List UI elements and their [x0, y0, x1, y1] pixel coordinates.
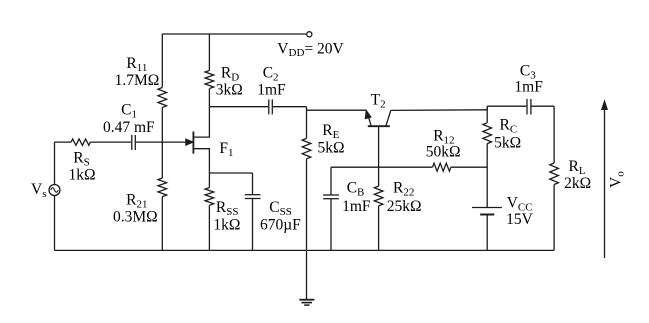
capacitor CSS 670uF — [245, 194, 261, 196]
svg-text:VDD= 20V: VDD= 20V — [277, 41, 344, 60]
capacitor CB 1mF — [323, 194, 339, 196]
svg-text:1mF: 1mF — [514, 79, 543, 96]
svg-text:RC: RC — [500, 117, 518, 136]
resistor RD 3k — [205, 71, 214, 89]
capacitor C2 1mF — [268, 99, 270, 114]
wire: VCC bottom to rail — [486, 215, 488, 251]
svg-text:670µF: 670µF — [260, 216, 301, 233]
wire: input from Vs to RS — [55, 141, 72, 143]
resistor R21 0.3M — [158, 178, 167, 197]
resistor RE 5k — [302, 138, 311, 158]
T2 base bar — [368, 125, 390, 127]
wire: C2 to RE node — [273, 106, 307, 108]
wire: bias line CB to RC branch with R12 — [331, 166, 433, 168]
wire: RE bottom through rail to ground stem — [306, 159, 308, 300]
transistor F1 channel bar — [192, 132, 194, 154]
wire: RL top lead — [553, 106, 555, 163]
output arrow Vo — [604, 108, 606, 259]
svg-text:R22: R22 — [393, 180, 414, 199]
resistor RC 5k — [483, 123, 492, 144]
capacitor C3 1mF — [526, 99, 528, 115]
svg-text:1kΩ: 1kΩ — [213, 216, 240, 233]
svg-text:0.47 mF: 0.47 mF — [103, 119, 155, 136]
svg-text:RD: RD — [221, 64, 239, 83]
wire: gate node down to R21 — [161, 142, 163, 178]
svg-text:Vs: Vs — [31, 181, 46, 200]
svg-text:1kΩ: 1kΩ — [69, 166, 96, 183]
T2 emitter diagonal — [368, 114, 372, 127]
wire: RS to C1 — [90, 141, 131, 143]
svg-text:CB: CB — [347, 180, 365, 199]
svg-text:2kΩ: 2kΩ — [564, 175, 591, 192]
svg-text:5kΩ: 5kΩ — [494, 135, 521, 152]
T2 collector diagonal — [386, 110, 391, 126]
wire: RSS bottom to rail — [208, 205, 210, 250]
svg-text:Vo: Vo — [608, 171, 627, 188]
resistor R11 1.7M — [158, 88, 167, 108]
source Vs (AC source circle) — [49, 185, 60, 196]
svg-text:5kΩ: 5kΩ — [318, 140, 345, 157]
wire: RE top lead — [306, 110, 308, 138]
svg-text:C1: C1 — [121, 102, 137, 121]
svg-text:50kΩ: 50kΩ — [426, 143, 461, 160]
wire: C1 to gate arrow — [136, 141, 186, 143]
wire: RC bottom to VCC battery — [486, 144, 488, 208]
svg-text:RSS: RSS — [216, 199, 239, 218]
resistor RSS 1k — [205, 188, 214, 206]
wire: C3 to RL top — [532, 105, 555, 107]
sine wave inside Vs — [51, 188, 58, 192]
resistor R12 50k — [433, 163, 451, 171]
wire: Vs branch lower to rail — [54, 196, 56, 251]
wire: collector to RC node — [391, 109, 487, 112]
wire: RD branch top (rail to RD) — [208, 34, 210, 71]
svg-text:15V: 15V — [506, 211, 533, 228]
wire: R22 bottom to rail — [378, 206, 380, 251]
VDD terminal (open circle) — [307, 32, 312, 37]
resistor R22 25k — [374, 186, 383, 206]
wire: CB top lead — [330, 167, 332, 195]
wire: RL bottom to rail — [553, 185, 555, 251]
wire: CSS top lead — [252, 173, 254, 194]
svg-text:1.7MΩ: 1.7MΩ — [115, 72, 160, 89]
resistor RS 1k — [71, 139, 90, 145]
wire: source node to CSS — [209, 172, 252, 174]
wire: RE node jog down — [306, 107, 308, 111]
wire: drain node to C2 — [209, 106, 268, 108]
wire: top VDD rail — [162, 33, 306, 35]
wire: R11 bottom to gate node — [161, 108, 163, 143]
capacitor C1 0.47mF — [131, 135, 133, 150]
wire: RC node to C3 — [487, 105, 526, 107]
svg-text:F1: F1 — [219, 140, 233, 159]
wire: RD bottom to drain corner (node with C2) — [194, 89, 210, 138]
svg-text:RE: RE — [322, 122, 339, 141]
svg-text:1mF: 1mF — [342, 198, 371, 215]
wire: RC top lead down — [486, 106, 488, 123]
wire: CB bottom to rail — [330, 199, 332, 250]
svg-text:1mF: 1mF — [257, 82, 286, 99]
resistor RL 2k — [550, 163, 559, 185]
wire: RE node to T2 emitter arrow — [307, 109, 367, 111]
transistor T2 emitter arrowhead — [365, 111, 370, 119]
wire: bottom ground rail — [55, 249, 555, 251]
svg-text:CSS: CSS — [269, 199, 292, 218]
svg-text:0.3MΩ: 0.3MΩ — [113, 208, 158, 225]
wire: R12 to RC branch — [451, 166, 487, 168]
wire: R21 bottom to ground rail — [161, 197, 163, 251]
gate arrowhead of F1 — [186, 139, 193, 145]
F1 source lead and down wire — [194, 149, 210, 188]
battery VCC 15V long plate — [472, 207, 502, 209]
wire: RC node jog up — [486, 106, 488, 110]
svg-text:T2: T2 — [371, 91, 386, 110]
svg-text:25kΩ: 25kΩ — [387, 198, 422, 215]
wire: CSS bottom to rail — [252, 199, 254, 251]
svg-text:C2: C2 — [263, 64, 279, 83]
wire: R11 branch top (rail to R11) — [161, 34, 163, 88]
wire: Vs branch upper — [54, 142, 56, 184]
svg-text:3kΩ: 3kΩ — [216, 82, 243, 99]
wire: T2 base down to R22 — [378, 126, 380, 186]
ground — [299, 299, 314, 301]
battery VCC short plate — [480, 214, 494, 216]
